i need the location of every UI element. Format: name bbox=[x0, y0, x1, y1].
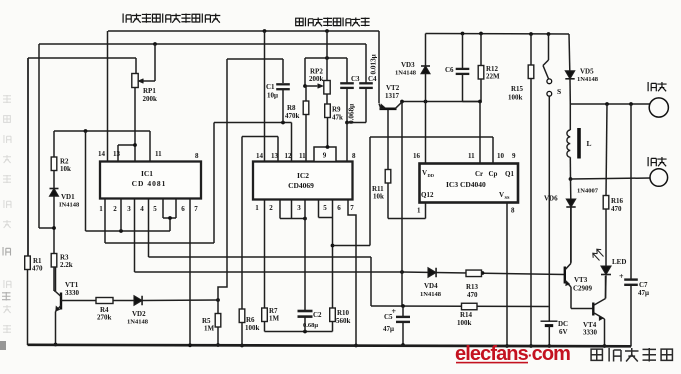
svg-text:VD6: VD6 bbox=[544, 195, 558, 203]
svg-text:8: 8 bbox=[352, 152, 356, 160]
wire top rail B y44 bbox=[39, 43, 366, 45]
wire Cp line y137 to IC3 pin10 bbox=[370, 136, 493, 138]
svg-text:IN4148: IN4148 bbox=[59, 202, 80, 209]
svg-text:C7: C7 bbox=[639, 281, 648, 289]
svg-text:R10: R10 bbox=[337, 309, 350, 317]
resistor R9 47k bbox=[326, 94, 328, 104]
wire top-right battery rail y34 bbox=[426, 33, 570, 36]
potentiometer RP1 200k bbox=[132, 74, 138, 88]
wire IC1 pin11 net y131 to R2 top bbox=[54, 130, 150, 132]
svg-text:IC2: IC2 bbox=[297, 171, 309, 180]
svg-text:2: 2 bbox=[113, 205, 117, 213]
wire y122 net to IC2 pin12 and C1 bbox=[214, 122, 292, 124]
svg-text:47μ: 47μ bbox=[638, 289, 649, 297]
svg-text:VD3: VD3 bbox=[401, 61, 415, 69]
battery DC 6V bbox=[541, 320, 558, 322]
svg-text:16: 16 bbox=[413, 152, 421, 160]
wire ground rail bottom bbox=[28, 345, 632, 347]
wire output node y104 bbox=[570, 103, 649, 105]
svg-text:C5: C5 bbox=[384, 313, 393, 321]
wire Cr feed to IC3 pin11 bbox=[479, 102, 481, 164]
svg-text:200k: 200k bbox=[143, 95, 158, 103]
label: treatment pulse frequency adjust (Chinese) bbox=[296, 18, 303, 25]
wire IC1 pin13 stub loop bbox=[117, 145, 119, 162]
wire IC2 pin1 to R7 bbox=[264, 199, 266, 308]
wire y306 line C5 node to battery bbox=[371, 305, 549, 308]
svg-text:CD 4081: CD 4081 bbox=[132, 179, 167, 188]
resistor R1 470 bbox=[27, 58, 29, 256]
transistor VT1 3330 bbox=[54, 290, 56, 292]
svg-text:11: 11 bbox=[155, 150, 162, 158]
svg-text:Cp: Cp bbox=[489, 170, 498, 178]
svg-text:11: 11 bbox=[468, 152, 475, 160]
svg-text:560k: 560k bbox=[336, 317, 351, 325]
svg-text:470: 470 bbox=[32, 265, 43, 273]
svg-text:V: V bbox=[499, 191, 504, 199]
capacitor C7 47u bbox=[630, 104, 632, 279]
svg-text:6: 6 bbox=[337, 204, 341, 212]
svg-text:3330: 3330 bbox=[65, 289, 80, 297]
svg-text:1317: 1317 bbox=[385, 92, 400, 100]
IC IC1 CD4081 box bbox=[100, 162, 201, 199]
label: treatment pulse voltage amplitude adjust (Chinese) bbox=[123, 14, 131, 23]
svg-text:+: + bbox=[619, 272, 624, 281]
switch S bbox=[548, 34, 550, 60]
wire feedback node y331 bbox=[265, 331, 333, 333]
svg-text:100k: 100k bbox=[457, 319, 472, 327]
svg-text:VD4: VD4 bbox=[424, 282, 438, 290]
wire y59 segment to C1 top bbox=[227, 58, 283, 60]
resistor R8 470k bbox=[305, 86, 307, 101]
wire RP1 top feed from y58 bbox=[135, 58, 137, 74]
capacitor C2 0.68u bbox=[298, 310, 313, 313]
svg-text:V: V bbox=[422, 169, 427, 177]
wire RP1 wiper arrow from rail B bbox=[154, 44, 156, 81]
svg-text:47μ: 47μ bbox=[383, 325, 394, 333]
svg-text:L: L bbox=[587, 139, 592, 148]
wire L bottom node to electrode 2 bbox=[569, 177, 573, 181]
wire riser x371 to C5 node bbox=[370, 257, 372, 306]
svg-text:C6: C6 bbox=[445, 66, 454, 74]
svg-text:R16: R16 bbox=[611, 197, 624, 205]
svg-text:SS: SS bbox=[505, 195, 511, 200]
svg-text:200k: 200k bbox=[309, 75, 324, 83]
svg-text:C1: C1 bbox=[266, 83, 275, 91]
electrode 1 top bbox=[649, 98, 668, 117]
svg-text:C4: C4 bbox=[368, 75, 377, 83]
resistor R5 1M bbox=[217, 300, 219, 314]
svg-text:5: 5 bbox=[153, 205, 157, 213]
wire R6 riser x242 bbox=[241, 137, 243, 310]
svg-text:IC3 CD4040: IC3 CD4040 bbox=[446, 180, 486, 189]
resistor R4 270k bbox=[96, 298, 113, 304]
svg-text:10k: 10k bbox=[60, 165, 71, 173]
wire IC2 pin14 to rail A bbox=[264, 31, 266, 162]
diode VD3 1N4148 bbox=[425, 34, 427, 67]
wire IC1 pins5-6 U loop and drop bbox=[163, 199, 176, 232]
wire IC2 pin13 feed y137 from R6 riser bbox=[242, 136, 278, 138]
svg-text:0.68μ: 0.68μ bbox=[303, 322, 318, 329]
svg-text:100k: 100k bbox=[508, 94, 523, 102]
svg-text:14: 14 bbox=[98, 150, 106, 158]
svg-text:470k: 470k bbox=[285, 112, 300, 120]
svg-text:6V: 6V bbox=[559, 328, 568, 336]
svg-text:VD1: VD1 bbox=[61, 193, 75, 201]
wire IC1 pin2 drop bbox=[120, 199, 122, 232]
svg-text:22M: 22M bbox=[486, 73, 500, 81]
potentiometer RP2 200k bbox=[326, 58, 328, 81]
svg-text:elecfans·com: elecfans·com bbox=[455, 343, 570, 365]
svg-text:1: 1 bbox=[417, 207, 421, 215]
svg-text:14: 14 bbox=[256, 152, 264, 160]
wire RP2 wiper feed bbox=[304, 58, 306, 86]
wire IC2 pins5-6 loop bbox=[319, 199, 333, 218]
scan watermark left edge bbox=[3, 95, 11, 333]
svg-text:Cr: Cr bbox=[475, 170, 483, 178]
diode VD2 1N4148 bbox=[134, 296, 142, 306]
node dots on ground rail bbox=[188, 343, 192, 347]
svg-text:3: 3 bbox=[297, 204, 301, 212]
svg-text:Q12: Q12 bbox=[421, 191, 434, 199]
svg-text:0.013μ: 0.013μ bbox=[370, 54, 378, 74]
resistor R14 100k bbox=[462, 303, 478, 310]
svg-text:1N4007: 1N4007 bbox=[577, 188, 599, 195]
wire IC1 pin4 to y257 line bbox=[148, 199, 150, 258]
svg-text:9: 9 bbox=[512, 152, 516, 160]
svg-text:VD5: VD5 bbox=[580, 68, 594, 76]
wire y58 right segment bbox=[305, 57, 347, 59]
capacitor C5 47u electrolytic bbox=[402, 306, 404, 317]
svg-text:11: 11 bbox=[299, 152, 306, 160]
wire IC1 pin7 to ground rail bbox=[189, 199, 191, 346]
wire VD2 to R5 node jog up to x227 riser bbox=[216, 298, 220, 302]
svg-text:10μ: 10μ bbox=[267, 92, 278, 100]
wire switch to battery plus bbox=[548, 96, 550, 321]
wire IC2 pin7 to ground rail bbox=[348, 199, 356, 346]
svg-text:Q1: Q1 bbox=[505, 170, 514, 178]
logo Chinese text dianzi fashaoyou bbox=[591, 349, 602, 360]
capacitor C6 bbox=[462, 34, 464, 69]
wire H1 y231 pins 2,5,6 tie bbox=[86, 230, 171, 232]
diode VD6 1N4007 bbox=[570, 179, 572, 199]
svg-text:0.068μ: 0.068μ bbox=[348, 104, 356, 124]
svg-text:LED: LED bbox=[612, 258, 626, 266]
wire IC1 pin1 to H2 y243 to IC2 pin12 riser bbox=[104, 199, 106, 244]
svg-text:R14: R14 bbox=[460, 311, 473, 319]
svg-text:470: 470 bbox=[611, 205, 622, 213]
svg-text:R9: R9 bbox=[332, 106, 341, 114]
resistor R7 1M bbox=[262, 308, 268, 322]
svg-text:270k: 270k bbox=[97, 314, 112, 322]
transistor VT2 1317 bbox=[378, 31, 380, 103]
svg-text:13: 13 bbox=[113, 150, 121, 158]
svg-text:47k: 47k bbox=[332, 114, 343, 122]
svg-text:10k: 10k bbox=[373, 193, 384, 201]
diode VD4 1N4148 bbox=[428, 268, 436, 278]
svg-text:C2909: C2909 bbox=[573, 285, 593, 293]
capacitor C4 0.013u bbox=[365, 44, 367, 83]
svg-text:VT3: VT3 bbox=[574, 276, 588, 284]
svg-text:CD4069: CD4069 bbox=[288, 181, 314, 190]
svg-text:2.2k: 2.2k bbox=[60, 261, 73, 269]
resistor R10 560k bbox=[330, 308, 336, 322]
svg-text:1N4148: 1N4148 bbox=[577, 76, 599, 83]
transistor VT4 3330 bbox=[571, 308, 592, 310]
resistor R13 470 bbox=[466, 270, 482, 277]
svg-text:6: 6 bbox=[181, 205, 185, 213]
svg-text:8: 8 bbox=[511, 207, 515, 215]
resistor R15 100k bbox=[530, 34, 532, 65]
svg-text:1N4148: 1N4148 bbox=[395, 70, 417, 77]
svg-text:7: 7 bbox=[194, 205, 198, 213]
wire IC2 pin4 to C2 bbox=[304, 199, 306, 310]
wire IC3 pin8 VSS to ground rail bbox=[506, 203, 508, 347]
wire IC3 pin16 drop bbox=[425, 102, 427, 164]
wire top rail A y31 (VDD osc rail) bbox=[108, 30, 379, 32]
svg-text:IC1: IC1 bbox=[141, 169, 153, 178]
wire x85 drop pin11 net to H1 bbox=[85, 131, 87, 231]
wire base line VT1 to VD2 bbox=[113, 300, 134, 302]
wire C3C4 bottom to IC2 pin8 bbox=[346, 123, 348, 162]
svg-text:12: 12 bbox=[285, 152, 293, 160]
svg-text:R6: R6 bbox=[246, 316, 255, 324]
svg-text:C3: C3 bbox=[351, 75, 360, 83]
pin9 box of IC2 bbox=[314, 147, 336, 162]
svg-text:8: 8 bbox=[195, 152, 199, 160]
svg-text:DD: DD bbox=[428, 173, 435, 178]
svg-text:1N4148: 1N4148 bbox=[127, 319, 149, 326]
svg-text:1: 1 bbox=[99, 205, 103, 213]
svg-text:R13: R13 bbox=[466, 283, 479, 291]
svg-text:VT1: VT1 bbox=[65, 281, 79, 289]
wire R11 to IC3 pin1 Q12 bbox=[388, 218, 426, 220]
wire left rail y58 segment bbox=[28, 57, 136, 59]
resistor R11 10k bbox=[385, 170, 391, 184]
wire IC1 pin3 to y272 signal line to VT3 base bbox=[134, 199, 136, 273]
svg-text:S: S bbox=[557, 87, 561, 96]
resistor R2 10k bbox=[53, 157, 55, 171]
wire VT2 collector node y101 rail bbox=[402, 101, 480, 103]
svg-text:R15: R15 bbox=[511, 85, 524, 93]
svg-text:4: 4 bbox=[140, 205, 144, 213]
electrode 2 bottom bbox=[650, 169, 668, 187]
svg-text:7: 7 bbox=[350, 204, 354, 212]
wire IC2 pins2-3 loop to pin4 line bbox=[280, 199, 305, 219]
wire Cp feed y245 x370 riser to y137 bbox=[333, 245, 371, 247]
svg-text:DC: DC bbox=[558, 320, 568, 328]
svg-text:470: 470 bbox=[467, 291, 478, 299]
wire VT2 collector drop x402 bbox=[401, 102, 403, 307]
transistor VT3 C2909 bbox=[564, 267, 566, 284]
wire RP1 bottom to IC1 pin12 bbox=[134, 88, 136, 162]
svg-text:10: 10 bbox=[497, 152, 505, 160]
IC IC2 CD4069 box bbox=[253, 162, 353, 200]
svg-text:VD2: VD2 bbox=[132, 310, 146, 318]
svg-text:C2: C2 bbox=[313, 311, 322, 319]
svg-text:1M: 1M bbox=[204, 325, 215, 333]
resistor R12 22M bbox=[480, 34, 482, 66]
svg-text:1M: 1M bbox=[269, 315, 280, 323]
svg-text:1N4148: 1N4148 bbox=[420, 291, 442, 298]
diode VD5 1N4148 bbox=[568, 34, 571, 71]
capacitor C3 0.068u bbox=[346, 58, 348, 83]
svg-text:VT2: VT2 bbox=[386, 84, 400, 92]
svg-text:1: 1 bbox=[255, 204, 259, 212]
svg-text:3330: 3330 bbox=[583, 329, 598, 337]
svg-text:2: 2 bbox=[269, 204, 273, 212]
LED bbox=[601, 266, 611, 275]
svg-text:3: 3 bbox=[127, 205, 131, 213]
IC IC3 CD4040 box bbox=[420, 164, 519, 203]
svg-text:9: 9 bbox=[323, 152, 327, 160]
wire IC1 pin14 to rail A bbox=[107, 31, 109, 162]
resistor R3 2.2k bbox=[51, 254, 57, 268]
capacitor C1 10u bbox=[276, 83, 290, 85]
svg-text:R8: R8 bbox=[287, 104, 296, 112]
wire rail B left drop x39 to VD1 node bbox=[38, 44, 40, 228]
resistor R6 100k bbox=[239, 309, 245, 323]
svg-text:RP1: RP1 bbox=[143, 87, 156, 95]
wire osc node drop x332 to R10 bbox=[332, 218, 334, 309]
svg-text:5: 5 bbox=[323, 204, 327, 212]
resistor R16 470 bbox=[606, 104, 607, 196]
svg-text:100k: 100k bbox=[245, 324, 260, 332]
inductor L with core bbox=[569, 104, 571, 130]
diode VD1 1N4148 bbox=[53, 171, 55, 189]
